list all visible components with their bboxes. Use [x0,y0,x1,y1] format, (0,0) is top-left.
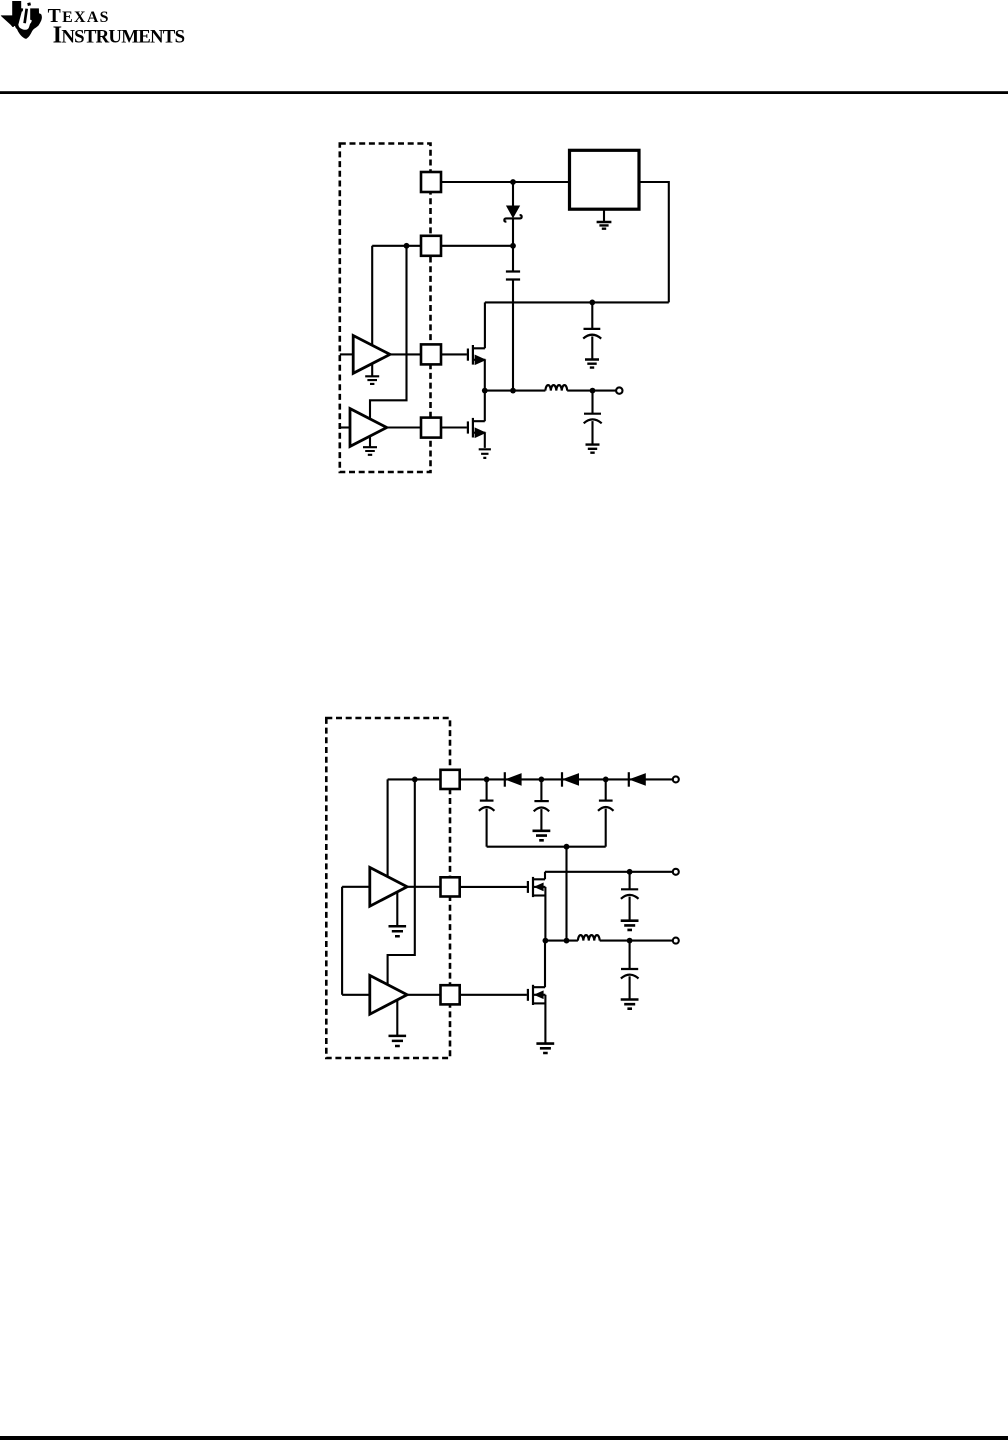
flying cap rail [487,846,606,848]
diode D1 [504,772,506,787]
wire P2 right to zener node [441,245,513,247]
capacitor CD [629,872,631,890]
pin square P4 [421,418,441,438]
wire B1 out to P2 [407,886,440,888]
pin square P2 [441,877,460,896]
IC dashed box [340,144,431,473]
wire B2 out to P3 [407,994,440,996]
input wire A1 [340,353,353,355]
block U2 [570,150,640,209]
TEXAS INSTRUMENTS wordmark [48,5,185,49]
svg-text:INSTRUMENTS: INSTRUMENTS [53,22,185,49]
buffer A1 [353,336,390,374]
diode D3 [628,772,630,787]
wire down to buffer B1 [387,779,389,877]
junction dot [627,869,633,875]
ground under B1 [396,892,398,926]
junction dot [627,938,633,944]
input wire A2 [340,426,350,428]
ground under block [603,209,605,222]
black i stem [25,9,27,24]
wire P1 to block [441,181,570,183]
ground under B2 [396,1000,398,1036]
pin square P1 [441,770,460,789]
ground under C2 [585,360,599,368]
wire down to buffer A1 [371,246,373,346]
mid horizontal wire [485,301,669,303]
MOSFET M1 [460,886,527,888]
capacitor CE [629,941,631,969]
wire down to switch node [565,847,567,941]
polarized capacitor C2 [591,302,593,329]
junction dots on switch node [482,388,488,394]
wire to output [600,940,672,942]
header rule [0,91,1008,94]
ground under M2 [536,1044,554,1053]
wire A2 out to P4 [387,426,421,428]
ground under CE [621,1000,639,1009]
pin square P3 [421,344,441,364]
MOSFET Q2 [441,426,467,428]
inductor L1 [545,385,567,390]
pin square P3 [441,985,460,1004]
switch node rail [545,940,578,942]
MOSFET Q1 [441,353,467,355]
IC dashed box [326,718,450,1058]
buffer A2 [350,409,387,447]
TI logo: texas map glyph [1,1,42,39]
junction dot [404,243,410,249]
ground under A1 [371,364,373,376]
input wire B1 [342,886,370,888]
wire into P1 [388,778,441,780]
wire jog down to buffer A2 [370,246,407,419]
junction dots on rail [484,777,490,783]
ground under CD [621,921,639,930]
junction dot [590,388,596,394]
MOSFET M2 [460,994,527,996]
flying capacitor CC [605,779,607,800]
feedback wire to B2 input [341,887,343,995]
inductor L1 [578,935,600,940]
terminal circle [673,938,679,944]
ground under CB [533,831,551,841]
flying capacitor CA [486,779,488,800]
junction dot [589,300,595,306]
junction dot [510,243,516,249]
wire block right down [639,182,669,302]
black i dot [27,2,31,6]
wire P2 left [372,245,421,247]
terminal circle [673,869,679,875]
pin square P1 [421,172,441,192]
switch node wire [485,390,546,392]
diode D2 [561,772,563,787]
pin square P2 [421,236,441,256]
zener diode D1 [512,182,514,206]
ground under A2 [369,437,371,447]
buffer B1 [370,867,407,906]
polarized capacitor C3 (output) [591,391,593,414]
wire jog down to buffer B2 [388,779,415,986]
junction dot [564,844,570,850]
terminal circle [673,776,679,782]
wire to output [567,390,616,392]
footer rule [0,1436,1008,1440]
ground under C3 [586,445,600,453]
capacitor C1 (bootstrap, on zener node) [512,246,514,272]
capacitor CB to ground [540,779,542,801]
buffer B2 [370,975,407,1014]
junction dot [412,777,418,783]
wire A1 out to P3 [390,353,421,355]
diode rail from P1 [460,778,672,780]
output terminal circle [616,387,622,393]
VOUT1 rail [545,871,672,873]
junction dot [510,179,516,185]
ground under Q2 [479,449,491,458]
